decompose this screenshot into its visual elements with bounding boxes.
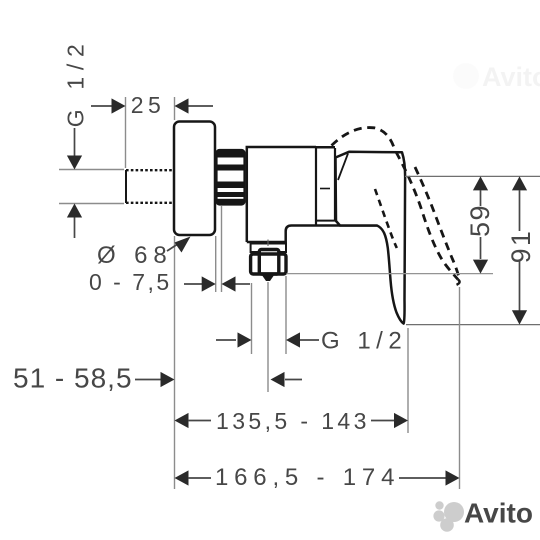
svg-text:Ø 68: Ø 68 [97,242,173,269]
dimension 91 bottom arrow [519,261,521,311]
dimension 59 top arrow [473,176,488,190]
dashed handle raised - upper edge [396,152,458,280]
dimension 25 left arrow [91,105,113,107]
dimension 51-58,5 arrow left (at axis) [285,379,302,381]
extension line flange left lower [174,236,176,489]
dimension 51-58,5 arrow right [135,379,161,381]
svg-text:51 - 58,5: 51 - 58,5 [13,363,133,394]
extension line nut left (0-7,5) [221,206,223,292]
outlet valve neck [251,244,286,253]
svg-text:Avito: Avito [482,62,540,92]
reference line valve bottom level [287,273,494,275]
svg-text:166,5 - 174: 166,5 - 174 [215,464,400,491]
dimension 59 bottom arrow [480,237,482,259]
extension line valve left [251,283,253,354]
dimension G 1/2 bottom right arrow [300,339,319,341]
extension line solid lever tip [407,328,409,433]
dashed handle tip [457,280,460,285]
handle neck inner line [338,154,348,181]
handle lever solid [336,152,406,324]
reference line lever tip level [406,324,540,326]
extension line valve right [285,276,287,354]
outlet hex nut [259,250,279,275]
svg-text:0 - 7,5: 0 - 7,5 [89,269,172,295]
outlet center axis tick [267,240,269,247]
dimension 135,5-143 right arrow [371,420,395,422]
cartridge pin mark [320,188,330,190]
dimension 166,5-174 left arrow [175,470,189,485]
dashed handle raised - right edge [415,167,460,280]
dimension 135,5-143 left arrow [175,413,189,428]
svg-text:91: 91 [506,229,536,263]
extension line pipe bottom [59,203,124,205]
body bottom left edge [247,226,377,243]
body right edge [315,147,317,226]
extension line pipe top [59,169,124,171]
dimension arrow up to pipe bottom [74,216,76,238]
svg-text:Avito: Avito [464,498,533,529]
cartridge ring [334,148,336,221]
extension line dashed lever tip [459,287,461,489]
dimension 0-7,5 right arrow [235,283,250,285]
outlet spigot tip [262,275,275,282]
extension line flange left edge top (for 25) [174,97,176,120]
dimension 166,5-174 right arrow [399,477,446,479]
dimension 91 top arrow [512,176,527,190]
wall pipe nipple threaded [126,170,174,203]
dimension G 1/2 bottom left arrow [216,339,236,341]
ribbed connection nut [217,150,245,205]
dimension arrow down to pipe top [74,128,76,158]
watermark avito bottom right [433,498,533,532]
extension line pipe left edge (for 25) [125,97,127,168]
datum line outlet level right [405,175,540,177]
extension line flange right (0-7,5) [215,236,217,292]
dashed handle raised - top arc [332,128,395,149]
svg-text:135,5 - 143: 135,5 - 143 [216,408,370,434]
svg-text:59: 59 [465,204,495,237]
dimension 0-7,5 left arrow [184,283,202,285]
wall flange escutcheon [174,122,215,236]
dimension 25 right arrow [188,105,213,107]
outlet center axis line [267,282,269,392]
leader diameter 68 [167,245,177,252]
svg-text:G 1/2: G 1/2 [63,38,89,128]
svg-text:G 1/2: G 1/2 [321,328,407,355]
dashed handle raised - lower edge [375,189,397,248]
svg-text:25: 25 [131,92,166,118]
watermark avito top right [453,62,540,92]
mixer body [247,147,316,242]
